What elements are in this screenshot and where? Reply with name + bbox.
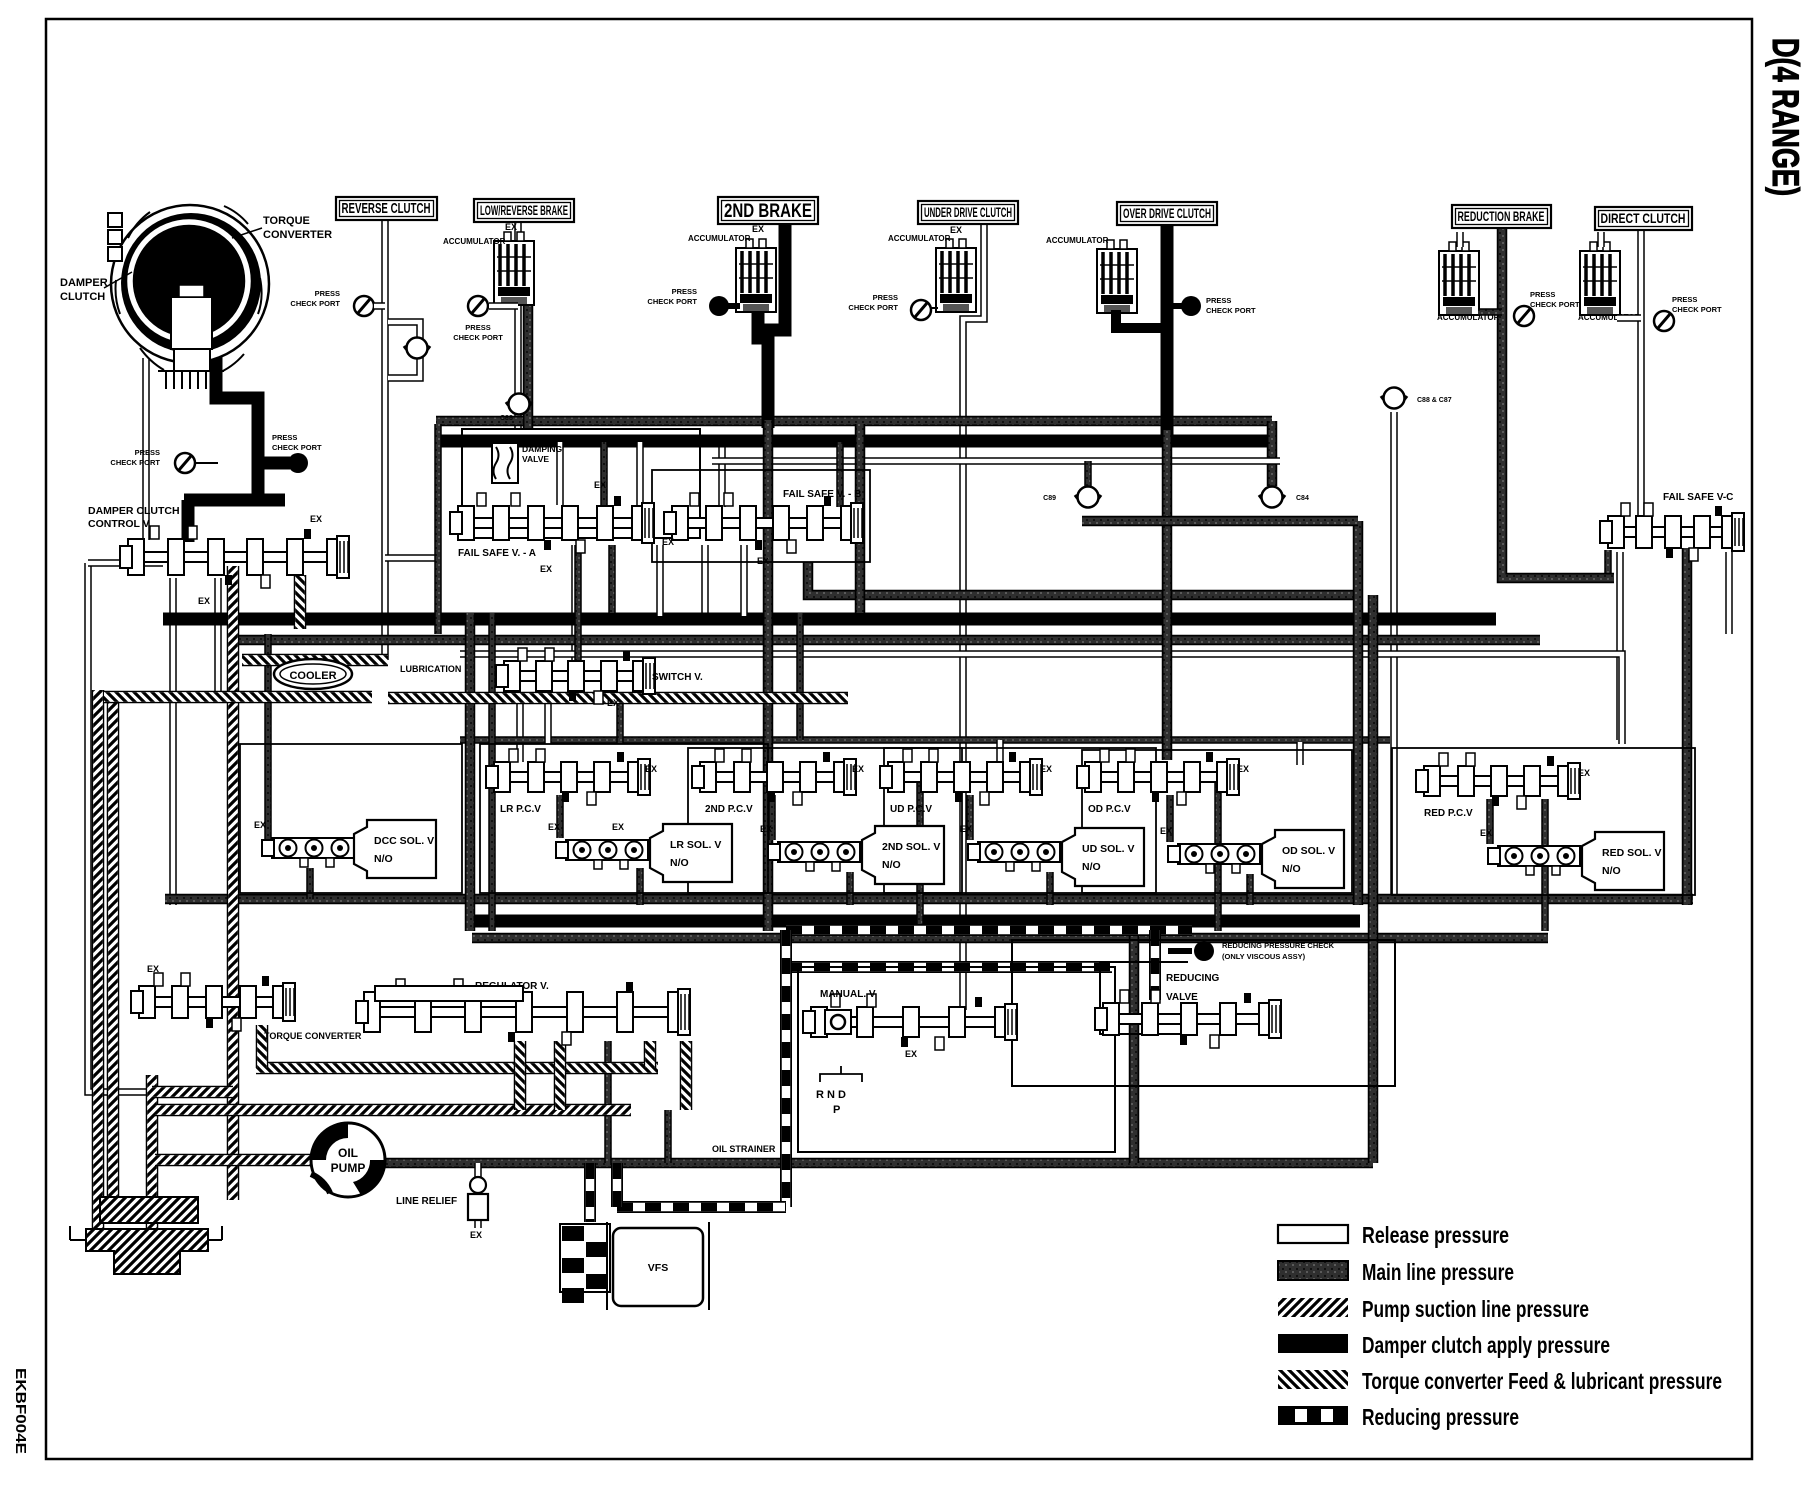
svg-text:TORQUE: TORQUE (263, 215, 310, 227)
svg-text:PRESS: PRESS (672, 287, 697, 296)
wire line relief (474, 1163, 482, 1228)
wire switch to LR pcv (516, 692, 524, 762)
svg-text:EX: EX (1160, 826, 1172, 836)
svg-text:PRESS: PRESS (315, 289, 340, 298)
svg-text:OVER DRIVE CLUTCH: OVER DRIVE CLUTCH (1123, 206, 1211, 221)
accumulator under drive (936, 239, 976, 312)
svg-text:C88 & C87: C88 & C87 (1417, 397, 1452, 404)
svg-text:FAIL SAFE V. - B: FAIL SAFE V. - B (783, 489, 861, 500)
svg-text:EX: EX (254, 820, 266, 830)
label reverse clutch (336, 197, 437, 220)
svg-text:EX: EX (1480, 828, 1492, 838)
svg-text:EX: EX (757, 556, 769, 566)
svg-text:EX: EX (540, 564, 552, 574)
wire under drive clutch feed (963, 222, 984, 1010)
valve OD PCV (1077, 749, 1239, 805)
wire port stub lowrev (489, 302, 518, 310)
wire drop c1 (544, 692, 552, 744)
svg-text:ACCUMULATOR: ACCUMULATOR (443, 237, 506, 246)
wire reg drop2 (664, 1110, 672, 1163)
svg-text:EKBF004E: EKBF004E (12, 1368, 29, 1454)
press check port direct (1654, 311, 1674, 331)
svg-text:ACCUMULATOR: ACCUMULATOR (888, 234, 951, 243)
valve fail safe A (450, 493, 654, 553)
svg-text:VALVE: VALVE (1166, 992, 1198, 1003)
svg-text:Release pressure: Release pressure (1362, 1222, 1509, 1248)
wire rail R4 (238, 635, 1540, 646)
wire low/rev acc main (523, 295, 534, 430)
wire drop b2 (740, 545, 748, 616)
svg-text:FAIL SAFE V. - A: FAIL SAFE V. - A (458, 548, 536, 559)
solenoid RED (1488, 846, 1580, 875)
group box RED (1392, 748, 1695, 895)
reducing pressure check (filled) (1194, 941, 1214, 961)
regulator boost block (375, 986, 523, 1001)
wire damper apply 2 (184, 494, 285, 507)
svg-text:VFS: VFS (648, 1262, 668, 1274)
wire over drive apply upper (1161, 222, 1174, 440)
svg-text:ACCUMULATOR: ACCUMULATOR (1046, 236, 1109, 245)
reducing valve box (1012, 940, 1395, 1086)
reducing check port (1168, 948, 1192, 954)
svg-text:Main line pressure: Main line pressure (1362, 1259, 1514, 1285)
svg-text:CHECK PORT: CHECK PORT (848, 303, 898, 312)
svg-text:RED P.C.V: RED P.C.V (1424, 808, 1473, 819)
wire reducing drop (611, 1163, 623, 1207)
wire suction mid vertical (227, 566, 240, 1200)
wire main vertical V2 (1368, 595, 1379, 1163)
svg-text:CHECK PORT: CHECK PORT (290, 299, 340, 308)
wire damper valve drain (214, 578, 222, 695)
svg-text:CHECK PORT: CHECK PORT (647, 297, 697, 306)
wire rail R595 (808, 562, 1358, 595)
svg-text:ACCUMULATOR: ACCUMULATOR (688, 234, 751, 243)
svg-text:CHECK PORT: CHECK PORT (453, 333, 503, 342)
wire failsafeC down (1616, 552, 1624, 740)
wire failsafeA to switch (571, 545, 579, 660)
svg-text:OIL STRAINER: OIL STRAINER (712, 1144, 776, 1154)
svg-text:N/O: N/O (670, 857, 689, 869)
wire damper port stub (195, 462, 218, 464)
wire lr pcv to sol (556, 795, 564, 838)
svg-text:EX: EX (607, 698, 619, 708)
svg-text:EX: EX (752, 224, 764, 234)
check ball C89 (1075, 487, 1101, 508)
box LR sol (650, 824, 732, 882)
press check port damper (filled) (288, 453, 308, 473)
wire 2nd brake apply upper (768, 222, 785, 428)
box RED sol (1582, 832, 1664, 890)
wire drop a1 (556, 442, 564, 505)
wire failsafeC feed up (1604, 550, 1612, 578)
valve 2ND PCV (692, 749, 856, 805)
svg-text:EX: EX (505, 222, 517, 232)
svg-text:LINE RELIEF: LINE RELIEF (396, 1196, 457, 1207)
valve damper clutch control (120, 526, 349, 588)
press check port reverse (354, 296, 374, 316)
wire 2nd brake main feed (763, 420, 774, 931)
wire rail R5 (460, 736, 1390, 744)
svg-text:2ND P.C.V: 2ND P.C.V (705, 804, 753, 815)
svg-text:CHECK PORT: CHECK PORT (1206, 306, 1256, 315)
svg-text:N/O: N/O (882, 859, 901, 871)
accumulator over drive (1097, 240, 1137, 313)
svg-text:Pump suction line pressure: Pump suction line pressure (1362, 1296, 1589, 1322)
reducing valve inner bracket (1100, 962, 1188, 1034)
svg-text:PRESS: PRESS (873, 293, 898, 302)
legend torque converter feed (1278, 1368, 1722, 1394)
wire regulator drop1 (604, 1041, 612, 1163)
svg-text:REDUCTION BRAKE: REDUCTION BRAKE (1458, 209, 1545, 224)
wire tc feed v3 (680, 1041, 693, 1110)
svg-text:Reducing pressure: Reducing pressure (1362, 1404, 1519, 1430)
wire damper apply port stub (262, 457, 290, 470)
svg-text:SWITCH V.: SWITCH V. (652, 672, 703, 683)
wire red acc stem (1456, 232, 1464, 247)
svg-text:EX: EX (310, 514, 322, 524)
legend damper clutch apply (1278, 1332, 1610, 1358)
manual valve knob (825, 1010, 851, 1034)
svg-text:P: P (833, 1104, 840, 1116)
solenoid UD (968, 842, 1060, 871)
svg-text:N/O: N/O (1082, 861, 1101, 873)
sump lower (86, 1229, 208, 1274)
svg-text:CHECK PORT: CHECK PORT (1530, 300, 1580, 309)
svg-text:N/O: N/O (374, 853, 393, 865)
svg-text:N/O: N/O (1282, 863, 1301, 875)
svg-text:PUMP: PUMP (331, 1161, 366, 1175)
box DCC sol (354, 820, 436, 878)
wire drop c2 (616, 692, 624, 744)
wire drop b1 (656, 545, 664, 616)
group box OD (1082, 750, 1352, 893)
wire port stub reverse (374, 302, 385, 310)
wire red pcv drop (1541, 799, 1549, 931)
wire over drive main feed (1162, 430, 1173, 760)
svg-text:R N D: R N D (816, 1089, 846, 1101)
svg-text:DAMPER: DAMPER (60, 277, 108, 289)
cooler oval (274, 659, 352, 689)
wire dir acc stem (1597, 232, 1605, 247)
legend pump suction (1278, 1296, 1589, 1322)
svg-text:EX: EX (548, 822, 560, 832)
accumulator reduction (1439, 242, 1479, 315)
svg-text:LR P.C.V: LR P.C.V (500, 804, 541, 815)
valve torque converter relief (131, 973, 295, 1031)
valve LR PCV (486, 749, 650, 805)
accumulator 2nd (736, 239, 776, 312)
wire failsafeC right drop (1725, 552, 1733, 634)
svg-text:OD P.C.V: OD P.C.V (1088, 804, 1131, 815)
wire ud group drop (916, 775, 924, 931)
svg-text:CONVERTER: CONVERTER (263, 229, 332, 241)
wire drop a4 (836, 442, 844, 507)
wire lr sol down (636, 868, 644, 905)
wire main rail R6 (165, 894, 1693, 905)
svg-text:2ND SOL. V: 2ND SOL. V (882, 841, 940, 853)
svg-text:C89: C89 (1043, 495, 1056, 502)
svg-text:COOLER: COOLER (289, 670, 336, 682)
wire left top jog (88, 559, 163, 567)
svg-text:CHECK PORT: CHECK PORT (110, 458, 160, 467)
wire main vertical R10 (1682, 548, 1693, 905)
svg-text:D(4 RANGE): D(4 RANGE) (1765, 38, 1806, 196)
svg-text:EX: EX (470, 1230, 482, 1240)
wire reg drop h2 (554, 1041, 567, 1110)
solenoid LR (556, 840, 648, 869)
wire dcc sol drop (264, 634, 272, 843)
wire left tall release (88, 563, 148, 1092)
svg-text:REVERSE CLUTCH: REVERSE CLUTCH (342, 201, 431, 217)
wire suction to pump (155, 1154, 312, 1167)
wire reverse clutch feed (381, 219, 389, 660)
wire lubrication left (104, 691, 372, 704)
group box 2ND (688, 748, 962, 893)
svg-text:N/O: N/O (1602, 865, 1621, 877)
svg-text:LUBRICATION: LUBRICATION (400, 664, 461, 674)
label direct clutch (1595, 207, 1692, 230)
press check port under drive (911, 300, 931, 320)
press check port damper left (175, 453, 195, 473)
wire suction to sump (146, 1075, 159, 1235)
legend reducing pressure (1278, 1404, 1519, 1430)
press check port reduction (1514, 306, 1534, 326)
wire 2nd sol down (846, 872, 854, 905)
wire manual box top dashed (786, 961, 1112, 973)
svg-text:C88: C88 (500, 415, 513, 422)
svg-text:UD P.C.V: UD P.C.V (890, 804, 932, 815)
svg-text:(ONLY VISCOUS ASSY): (ONLY VISCOUS ASSY) (1222, 952, 1306, 961)
wire damper valve to rail (169, 578, 177, 905)
svg-text:PRESS: PRESS (1672, 295, 1697, 304)
wire tc feed v1 (256, 1025, 269, 1068)
wire drop a3 (636, 442, 644, 505)
press check port low/reverse (468, 296, 488, 316)
wire oil strainer rail R8 (383, 1158, 1373, 1169)
svg-text:UNDER DRIVE CLUTCH: UNDER DRIVE CLUTCH (924, 205, 1012, 220)
wire drop d2 (1296, 742, 1304, 765)
wire tc feed h (256, 1062, 658, 1075)
wire manual right drop (1129, 931, 1140, 1163)
wire main rail R1 (436, 416, 1272, 427)
accumulator direct (1580, 242, 1620, 315)
label 2nd brake (718, 197, 818, 224)
wire 2nd port stub (728, 303, 740, 309)
oil pump (311, 1123, 385, 1197)
wire cooler pipe (242, 654, 388, 667)
failsafe A inner box (462, 429, 700, 538)
failsafe B box (652, 470, 870, 562)
wire reverse check jog (388, 322, 420, 378)
wire TC to damper valve (142, 358, 150, 540)
wire damper apply 1 (216, 330, 258, 500)
wire rel rail R650 (460, 654, 1622, 744)
svg-text:CONTROL V.: CONTROL V. (88, 518, 152, 530)
sump rim lines (70, 1226, 222, 1240)
svg-text:CLUTCH: CLUTCH (60, 291, 105, 303)
accumulator low/reverse (494, 232, 534, 305)
valve RED PCV (1416, 753, 1580, 809)
wire od group drop (1214, 775, 1222, 931)
svg-text:LR SOL. V: LR SOL. V (670, 839, 721, 851)
svg-text:EX: EX (662, 537, 674, 547)
svg-text:DAMPING: DAMPING (522, 444, 563, 454)
box OD sol (1262, 830, 1344, 888)
wire black rail R6b (472, 915, 1360, 928)
wire ud pcv to sol (966, 795, 974, 840)
wire suction join (152, 1086, 233, 1099)
label low/reverse brake (474, 199, 574, 222)
selector RNDP (820, 1066, 862, 1082)
wire red pcv to sol (1486, 799, 1494, 844)
svg-text:Torque converter Feed & lubric: Torque converter Feed & lubricant pressu… (1362, 1368, 1722, 1394)
box 2ND sol (862, 826, 944, 884)
wire low/reverse to damping (514, 298, 522, 430)
svg-text:PRESS: PRESS (135, 448, 160, 457)
svg-text:EX: EX (612, 822, 624, 832)
wire failsafeA enclosure left (434, 424, 442, 634)
svg-text:EX: EX (645, 764, 657, 774)
wire damper apply 3 (182, 500, 195, 542)
svg-text:EX: EX (1578, 768, 1590, 778)
svg-text:EX: EX (594, 480, 606, 490)
wire od acc elbow (1116, 310, 1167, 328)
svg-text:RED SOL. V: RED SOL. V (1602, 847, 1662, 859)
box UD sol (1062, 828, 1144, 886)
svg-text:VALVE: VALVE (522, 454, 549, 464)
check ball C88 C87 (1381, 388, 1407, 409)
group box UD (884, 748, 1156, 893)
wire reg drop h1 (514, 1041, 527, 1110)
wire failsafeA right drop (608, 545, 616, 613)
svg-text:EX: EX (198, 596, 210, 606)
wire main rail R7 (472, 933, 1548, 944)
wire main rail R3 (163, 613, 1496, 626)
VFS body (607, 1222, 709, 1310)
svg-text:EX: EX (760, 824, 772, 834)
svg-text:Damper clutch apply pressure: Damper clutch apply pressure (1362, 1332, 1610, 1358)
wire od pcv to sol (1166, 795, 1174, 842)
wire failsafeB right drop (855, 424, 866, 613)
svg-text:EX: EX (1040, 764, 1052, 774)
svg-text:PRESS: PRESS (1530, 290, 1555, 299)
manual valve box (798, 967, 1115, 1152)
svg-text:EX: EX (905, 1049, 917, 1059)
svg-text:DAMPER CLUTCH: DAMPER CLUTCH (88, 505, 180, 517)
valve fail safe C (1600, 503, 1744, 561)
press check port 2nd (filled) (709, 296, 729, 316)
svg-text:EX: EX (950, 225, 962, 235)
group box LR (480, 744, 768, 893)
wire drop a2 (600, 442, 608, 505)
svg-text:TORQUE CONVERTER: TORQUE CONVERTER (264, 1031, 362, 1041)
label over drive clutch (1117, 202, 1217, 225)
torque converter (108, 205, 269, 389)
svg-text:DCC SOL. V: DCC SOL. V (374, 835, 434, 847)
wire suction left vertical (92, 690, 105, 1240)
wire ud sol down (1046, 872, 1054, 905)
svg-text:MANUAL. V: MANUAL. V (820, 989, 876, 1000)
label under drive clutch (918, 201, 1018, 224)
check ball C84 (1259, 487, 1285, 508)
svg-text:EX: EX (147, 964, 159, 974)
wire R18 (488, 613, 496, 931)
press check port over drive (filled) (1181, 296, 1201, 316)
wire od sol down (1246, 874, 1254, 905)
wire C89 riser (1084, 461, 1092, 486)
wire vfs feed (584, 1163, 596, 1222)
valve fail safe B (664, 493, 863, 553)
svg-text:PRESS: PRESS (272, 433, 297, 442)
valve reducing (1095, 990, 1281, 1048)
legend main line pressure (1278, 1259, 1514, 1285)
wire reducing bottom (617, 1201, 786, 1213)
solenoid 2ND (768, 842, 860, 871)
svg-text:DIRECT CLUTCH: DIRECT CLUTCH (1601, 210, 1686, 226)
wire suction h1 (155, 1104, 631, 1117)
wire lubrication right (388, 692, 848, 705)
wire reducing to valve (1149, 930, 1161, 1000)
svg-text:REDUCING PRESSURE CHECK: REDUCING PRESSURE CHECK (1222, 941, 1335, 950)
wire dcc sol down (306, 868, 314, 899)
svg-text:REDUCING: REDUCING (1166, 973, 1220, 984)
svg-text:PRESS: PRESS (1206, 296, 1231, 305)
legend release pressure (1278, 1222, 1509, 1248)
wire red acc join (1478, 308, 1502, 316)
wire main vertical V1 (1353, 521, 1364, 905)
wire drop d1 (996, 740, 1004, 765)
svg-text:OIL: OIL (338, 1146, 358, 1160)
valve regulator (356, 979, 690, 1045)
svg-text:LOW/REVERSE BRAKE: LOW/REVERSE BRAKE (480, 203, 568, 218)
valve UD PCV (880, 749, 1042, 805)
solenoid OD (1168, 844, 1260, 873)
wire main rail R2 (436, 435, 1272, 448)
wire reducing vertical (780, 930, 792, 1207)
wire dir acc join (1617, 314, 1641, 322)
wire suction left vertical b (107, 697, 120, 1200)
wire reducing rail D1 (786, 924, 1192, 936)
label reduction brake (1452, 205, 1551, 228)
wire direct clutch feed (1637, 229, 1645, 520)
wire cooler up stub (294, 575, 307, 629)
solenoid DCC (262, 838, 354, 867)
group box DCC (240, 744, 462, 893)
wire R17 (465, 613, 476, 931)
damping valve (492, 443, 518, 483)
wire tc feed v2 (644, 1041, 657, 1068)
svg-text:FAIL SAFE V-C: FAIL SAFE V-C (1663, 492, 1733, 503)
wire 2nd group drop (796, 613, 804, 740)
wire rail to failsafeB (718, 437, 726, 507)
wire failsafeB drain (701, 545, 709, 613)
svg-text:EX: EX (1237, 764, 1249, 774)
svg-text:UD SOL. V: UD SOL. V (1082, 843, 1135, 855)
wire thin rel rail (712, 457, 1280, 465)
valve manual (803, 994, 1017, 1050)
svg-text:CHECK PORT: CHECK PORT (272, 443, 322, 452)
svg-text:OD SOL. V: OD SOL. V (1282, 845, 1335, 857)
svg-text:C84: C84 (1296, 495, 1309, 502)
wire 2nd acc elbow (758, 310, 770, 338)
valve switch (496, 648, 655, 704)
check ball reverse (404, 338, 430, 359)
check ball C88 (506, 394, 532, 415)
wire C88 C87 line (1390, 412, 1398, 895)
wire failsafeA drop gray (574, 545, 582, 660)
sump upper (100, 1197, 198, 1223)
svg-text:CHECK PORT: CHECK PORT (1672, 305, 1722, 314)
